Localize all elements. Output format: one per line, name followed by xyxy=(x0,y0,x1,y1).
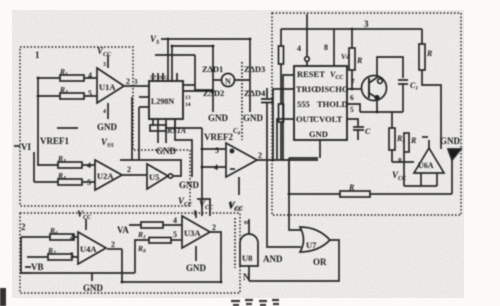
wire drop 555 gnd xyxy=(319,140,321,158)
wire emitter bus xyxy=(360,111,403,113)
wire gnd drop xyxy=(451,160,453,194)
wire VREF1 stub xyxy=(57,127,78,129)
buffer U5 xyxy=(147,164,168,189)
wire U4A out drop xyxy=(121,249,123,282)
capacitor on branch xyxy=(261,99,273,103)
wire RS1A out xyxy=(166,127,202,129)
wire OR out loop xyxy=(249,240,339,281)
wire U6A inputs xyxy=(404,152,437,186)
wire drop A xyxy=(167,39,169,81)
resistor R3 xyxy=(58,162,82,168)
wire R8 out xyxy=(171,239,182,241)
wire bottom bus B xyxy=(122,281,222,283)
resistor R8 xyxy=(149,238,171,244)
wire drop C xyxy=(195,55,213,90)
wire R5 top xyxy=(391,112,393,162)
wire out up to TRIG xyxy=(273,89,294,160)
op-amp U6A xyxy=(414,148,444,173)
wire to gnd xyxy=(175,119,192,177)
junction dots xyxy=(167,38,170,41)
resistor R2 xyxy=(60,93,84,99)
corner smudge xyxy=(0,288,6,306)
wire Vs bus top xyxy=(161,38,250,40)
wire u3a power xyxy=(195,211,197,218)
resistor R small xyxy=(404,133,409,152)
resistor R7 xyxy=(48,254,72,260)
wire U8 down xyxy=(248,266,250,281)
op-amp U1A xyxy=(97,68,124,103)
wire feedback drop xyxy=(131,97,133,160)
wire pin4 drop xyxy=(306,14,308,56)
wire collector xyxy=(377,57,403,78)
wire VI stub xyxy=(14,145,20,147)
dashed stub near motor xyxy=(241,62,243,140)
wire R1 row xyxy=(38,77,97,79)
resistor R1 xyxy=(60,75,84,81)
wire bubble to chip xyxy=(306,61,308,66)
wire down branch xyxy=(267,88,301,247)
wire Vcc to U1A pin3 xyxy=(107,55,109,68)
gate U7 OR xyxy=(300,227,330,252)
wire CVOLT to C xyxy=(347,119,358,126)
wire 555 top bus xyxy=(281,28,422,30)
wire THOLD stub xyxy=(347,104,360,112)
pins left xyxy=(139,97,149,107)
resistor R (555) xyxy=(349,48,355,70)
wire R6 row xyxy=(21,236,78,238)
wire vcc tick xyxy=(85,219,87,230)
wire to OR upper input xyxy=(289,160,301,230)
wire pin8 drop xyxy=(333,29,335,66)
dashed box 2 xyxy=(20,213,240,293)
wire emitter xyxy=(376,98,378,112)
wire U6A out xyxy=(428,140,430,148)
wire R3 row xyxy=(38,164,95,166)
wire bottom bus left xyxy=(289,157,318,159)
inverter bubble pin4 xyxy=(305,57,310,62)
caption fragment xyxy=(231,300,279,305)
wire input from R5 xyxy=(392,161,414,163)
timer 555 xyxy=(294,66,347,140)
wire 194 left xyxy=(288,158,290,194)
resistor R bottom xyxy=(340,191,370,197)
pins top xyxy=(153,73,177,81)
dashed stub near U8 xyxy=(234,218,236,268)
wire out xyxy=(257,159,318,161)
motor M wire xyxy=(213,79,250,81)
wire bottom bus xyxy=(289,193,452,195)
wire input bus xyxy=(37,77,39,166)
wire R4 row xyxy=(34,181,95,183)
wire left bridge column xyxy=(212,46,214,112)
op-amp U3A xyxy=(182,216,210,248)
chip L298N xyxy=(149,81,183,119)
wire reset left xyxy=(283,75,294,160)
gate U8 AND xyxy=(240,234,258,266)
wire R7 row xyxy=(27,256,78,258)
pins bottom xyxy=(153,119,175,143)
wire DISCHG to base xyxy=(347,88,362,90)
wire U4A out xyxy=(107,248,122,250)
wire chip gnd xyxy=(165,119,167,143)
wire bus 3 xyxy=(155,54,195,56)
op-amp VREF2 comparator xyxy=(226,143,257,177)
wire drop B xyxy=(171,46,173,81)
wire U2A out to U5 xyxy=(122,174,147,176)
op-amp U4A xyxy=(78,232,106,264)
wire U3A out xyxy=(210,232,221,282)
wire vref2 power xyxy=(238,177,240,195)
resistor RS1A xyxy=(150,125,166,131)
op-amp U2A xyxy=(95,160,122,190)
wire R right xyxy=(422,29,441,149)
wire U5 out xyxy=(120,160,181,176)
motor N xyxy=(222,74,235,87)
wire out 555 left xyxy=(277,119,294,160)
minus mark U6A xyxy=(422,136,428,138)
resistor R4 xyxy=(58,179,82,185)
resistor VA xyxy=(141,222,163,228)
wire riser to R8 xyxy=(135,240,149,273)
wire vcc link xyxy=(197,199,210,216)
wire VA row xyxy=(129,224,182,226)
capacitor C1 xyxy=(398,80,408,84)
wire R2 row xyxy=(38,95,97,97)
wire U1A gnd xyxy=(107,103,109,119)
resistor R (right) xyxy=(419,44,425,70)
wire left pin drop xyxy=(138,107,140,160)
resistor lower left xyxy=(279,104,284,122)
capacitor C xyxy=(353,127,364,140)
transistor Q1 xyxy=(362,76,387,101)
wire R drop xyxy=(351,29,353,89)
pins right xyxy=(183,85,213,91)
wire C1 down xyxy=(402,84,404,112)
wire bottom bus A xyxy=(21,272,135,274)
wire VI bus xyxy=(33,152,35,182)
wire bus 2 xyxy=(172,45,213,47)
resistor R5 xyxy=(389,128,395,150)
wire u8 top xyxy=(248,219,250,234)
dashed box 1 xyxy=(20,47,190,206)
resistor pull-up left xyxy=(279,46,284,64)
wire U1A out to L298N xyxy=(124,85,149,87)
wire bus x202 xyxy=(201,128,203,216)
wire VB bracket xyxy=(21,237,31,273)
wire right bridge column xyxy=(249,39,251,112)
ground arrow xyxy=(448,149,461,160)
wire inputs xyxy=(202,149,226,167)
wire u4a gnd tick xyxy=(91,273,93,281)
wire u3a gnd xyxy=(195,246,197,261)
resistor R6 xyxy=(50,234,74,240)
dashed box 3 xyxy=(272,13,461,215)
